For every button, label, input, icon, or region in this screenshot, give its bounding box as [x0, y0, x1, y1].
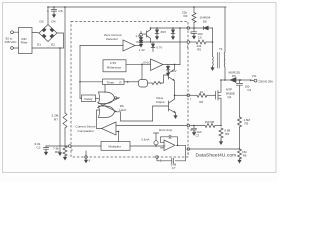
svg-text:13V: 13V: [172, 69, 177, 73]
diode D2 arrow lower-right edge: [50, 34, 54, 38]
2.5V reference box: [103, 60, 126, 72]
wire cs comp output to latch: [97, 110, 102, 129]
svg-text:C2: C2: [37, 146, 41, 150]
zener 13V below uvlo: [166, 64, 170, 72]
wire pin4 external: [190, 125, 205, 127]
svg-text:Filter: Filter: [21, 41, 28, 45]
wire vcc external: [190, 27, 213, 29]
svg-text:2.5V: 2.5V: [110, 61, 117, 65]
wire latch out to driver: [121, 112, 153, 121]
compensation capacitor: [157, 158, 174, 163]
wire timer bottom to gate: [104, 85, 106, 93]
wire R5 to aux: [206, 41, 213, 43]
wire filter to sense node: [215, 125, 221, 127]
wire pin7 gate: [190, 94, 197, 96]
svg-text:0.5mA: 0.5mA: [142, 137, 150, 141]
svg-text:C6: C6: [59, 9, 63, 13]
pin 5 circle: [187, 41, 190, 44]
error amp input stubs: [161, 142, 165, 148]
wire lower base feed: [153, 106, 169, 121]
error amp triangle: [164, 140, 175, 151]
current source circle: [154, 141, 158, 145]
svg-text:C3: C3: [196, 134, 200, 138]
capacitor C2: [44, 146, 49, 152]
wire delay to gate: [96, 97, 99, 99]
ground bridge return: [59, 151, 61, 153]
pin 7 circle: [187, 94, 190, 97]
ground zener 13V: [167, 72, 169, 74]
wire RFI bottom loop to bridge right vertex: [32, 33, 64, 48]
wire totem output to pin7: [175, 94, 187, 96]
bridge rectifier diamond: [39, 25, 57, 42]
capacitor C5 vcc: [192, 28, 197, 36]
wire zcd net down to delay: [79, 46, 81, 99]
wire error amp out: [175, 145, 185, 161]
delay box: [82, 95, 96, 102]
wire R7 to node: [64, 128, 66, 146]
zcd comparator triangle: [123, 40, 135, 51]
wire multiplier out to error amp: [130, 145, 165, 147]
wire drain node: [221, 79, 230, 81]
svg-text:Comparator: Comparator: [78, 129, 94, 133]
capacitor C6: [52, 7, 57, 14]
svg-text:R: R: [120, 80, 122, 84]
wire G2 output node: [148, 82, 153, 84]
svg-text:R8: R8: [55, 150, 59, 154]
ground C2: [45, 151, 47, 153]
latch cross couple wires: [98, 98, 121, 112]
svg-text:D3: D3: [40, 20, 44, 24]
svg-text:T1: T1: [219, 47, 223, 51]
T1 core lines: [218, 53, 220, 69]
T1 primary winding: [223, 7, 226, 80]
zener 6.7V: [152, 42, 154, 44]
wire uvlo out: [163, 63, 180, 65]
wire into delay: [80, 97, 82, 99]
wire node to C2: [46, 145, 68, 147]
mosfet Q1: [216, 80, 222, 126]
pin 2 circle: [156, 156, 159, 159]
wire to upper base: [161, 75, 169, 83]
svg-text:D2: D2: [51, 42, 55, 46]
svg-text:1.4V: 1.4V: [139, 48, 145, 52]
uvlo comparator triangle: [151, 59, 164, 71]
resistor R8: [63, 146, 67, 156]
ground C3: [193, 131, 195, 133]
wire D5 to output: [236, 79, 254, 82]
svg-text:R7: R7: [54, 118, 58, 122]
wire pin3 to multiplier: [71, 145, 101, 147]
T1 aux winding: [212, 56, 215, 67]
svg-text:D4: D4: [52, 20, 56, 24]
svg-text:R6: R6: [199, 100, 203, 104]
wire cs comp to multiplier: [116, 132, 119, 142]
AC input terminal top: [11, 31, 14, 34]
pin 3 circle: [69, 145, 72, 148]
timer box: [103, 79, 125, 85]
pin 1 circle: [187, 148, 190, 151]
svg-text:Q1: Q1: [228, 95, 232, 99]
ground pin 6: [85, 158, 87, 160]
svg-text:Latch: Latch: [119, 108, 126, 112]
resistor R4 startup: [192, 7, 196, 28]
AC input terminal bottom: [11, 47, 14, 50]
wire timer tap: [80, 81, 103, 83]
bias current source circle: [140, 33, 143, 36]
RFI filter box: [19, 28, 33, 54]
svg-text:VO: VO: [252, 74, 257, 78]
wire zcd input net: [80, 45, 123, 47]
top rail: [48, 6, 226, 8]
clamp diode upper: [139, 38, 142, 41]
svg-text:R4: R4: [184, 14, 188, 18]
resistor R gate 22: [197, 93, 207, 97]
ground aux winding: [212, 66, 214, 68]
wire timer out: [124, 81, 139, 83]
ground clamp diodes: [140, 43, 142, 45]
ground lower bjt: [175, 114, 177, 116]
current sense comparator triangle: [102, 122, 117, 135]
boost diode D5 MUR130: [230, 78, 236, 83]
emitter arrowhead lower: [173, 111, 175, 113]
transistor zcd bjt: [144, 28, 151, 42]
svg-text:Multiplier: Multiplier: [109, 145, 121, 149]
pin 6 circle: [85, 156, 88, 159]
pin6 stub: [85, 151, 87, 156]
pin 8 circle: [187, 27, 190, 30]
capacitor C3 filter: [192, 126, 197, 132]
svg-text:6.7V: 6.7V: [157, 46, 163, 50]
svg-text:D1: D1: [37, 42, 41, 46]
svg-text:R5: R5: [245, 122, 249, 126]
svg-text:UVLO: UVLO: [143, 60, 151, 64]
svg-text:DataSheet4U.com: DataSheet4U.com: [196, 153, 237, 159]
svg-text:C7: C7: [172, 166, 176, 170]
ground zener second: [172, 35, 174, 37]
wire RFI to bridge: [32, 31, 39, 34]
svg-text:Delay: Delay: [85, 97, 93, 101]
wire pin4 internal: [116, 125, 187, 127]
svg-text:230V/0.35A: 230V/0.35A: [258, 79, 273, 83]
resistor R7 2.2M: [63, 113, 67, 128]
svg-text:Error Amp: Error Amp: [159, 128, 172, 132]
rs latch gate lower: [99, 106, 115, 118]
wire bridge negative return: [59, 48, 61, 152]
svg-text:Reference: Reference: [107, 65, 122, 69]
resistor to upper base: [152, 81, 161, 84]
ground C6: [53, 13, 55, 15]
diode D4 arrow upper-right edge: [50, 28, 54, 32]
diode D6 1N4934: [204, 26, 209, 30]
svg-text:R6: R6: [243, 154, 247, 158]
wire bridge top to rail: [47, 7, 49, 25]
drive output lower transistor: [169, 95, 176, 114]
wire pin5 internal: [137, 41, 187, 43]
svg-text:Timer: Timer: [107, 80, 115, 84]
svg-text:R9: R9: [225, 132, 229, 136]
ground R8: [64, 156, 66, 158]
rs latch gate upper: [99, 92, 115, 104]
zener internal second: [171, 28, 175, 36]
svg-text:D6: D6: [203, 19, 207, 23]
error amp feedback loop: [161, 135, 178, 145]
wire: [13, 32, 18, 48]
svg-text:36V: 36V: [161, 30, 167, 34]
svg-text:1.6V: 1.6V: [136, 34, 142, 38]
zener 36V internal: [155, 28, 159, 36]
output capacitor: [237, 80, 243, 117]
drive gate G2: [139, 80, 148, 88]
svg-text:22: 22: [200, 90, 204, 94]
wire zcd output: [135, 45, 140, 47]
resistor R8 filter 150: [205, 124, 215, 128]
resistor R9 sense: [219, 128, 223, 141]
drive output upper transistor: [169, 64, 175, 95]
wire rail to R7: [64, 7, 66, 113]
resistor R5 divider: [238, 117, 242, 127]
svg-text:C5: C5: [198, 36, 202, 40]
vcc down line: [179, 28, 181, 64]
wire pin5 external: [190, 41, 196, 43]
ground R9: [220, 140, 222, 142]
output terminal: [254, 79, 257, 82]
wire divider to tap: [239, 127, 241, 149]
svg-text:Output: Output: [156, 100, 165, 104]
svg-text:D5: D5: [232, 74, 236, 78]
multiplier box: [101, 142, 130, 151]
ground zener 36V: [156, 35, 158, 37]
wire ref to uvlo: [126, 63, 151, 65]
svg-text:1: 1: [47, 9, 49, 13]
svg-text:C4: C4: [247, 88, 251, 92]
outer border frame: [3, 3, 277, 173]
clamp diode lower: [139, 40, 142, 43]
diode D3 arrow upper-left edge: [42, 28, 46, 32]
IC dashed boundary: [71, 22, 188, 158]
svg-text:Detector: Detector: [106, 37, 118, 41]
wire pin1 feedback: [190, 148, 240, 150]
diode D1 arrow lower-left edge: [42, 34, 46, 38]
svg-text:150 R8: 150 R8: [205, 120, 215, 124]
vcc internal wire: [151, 27, 187, 29]
wire gate: [207, 94, 216, 96]
ground C5 vcc: [193, 35, 195, 37]
svg-text:R5: R5: [197, 48, 201, 52]
wire D6 to aux winding: [212, 28, 214, 56]
resistor R6 divider: [238, 149, 242, 159]
emitter arrowhead upper: [172, 79, 174, 81]
pin 4 circle: [187, 124, 190, 127]
svg-text:138 VAC: 138 VAC: [4, 40, 17, 44]
wire gate feed from reference line: [141, 64, 143, 79]
resistor R5 22k: [196, 40, 206, 44]
ground R6 divider: [239, 159, 241, 161]
